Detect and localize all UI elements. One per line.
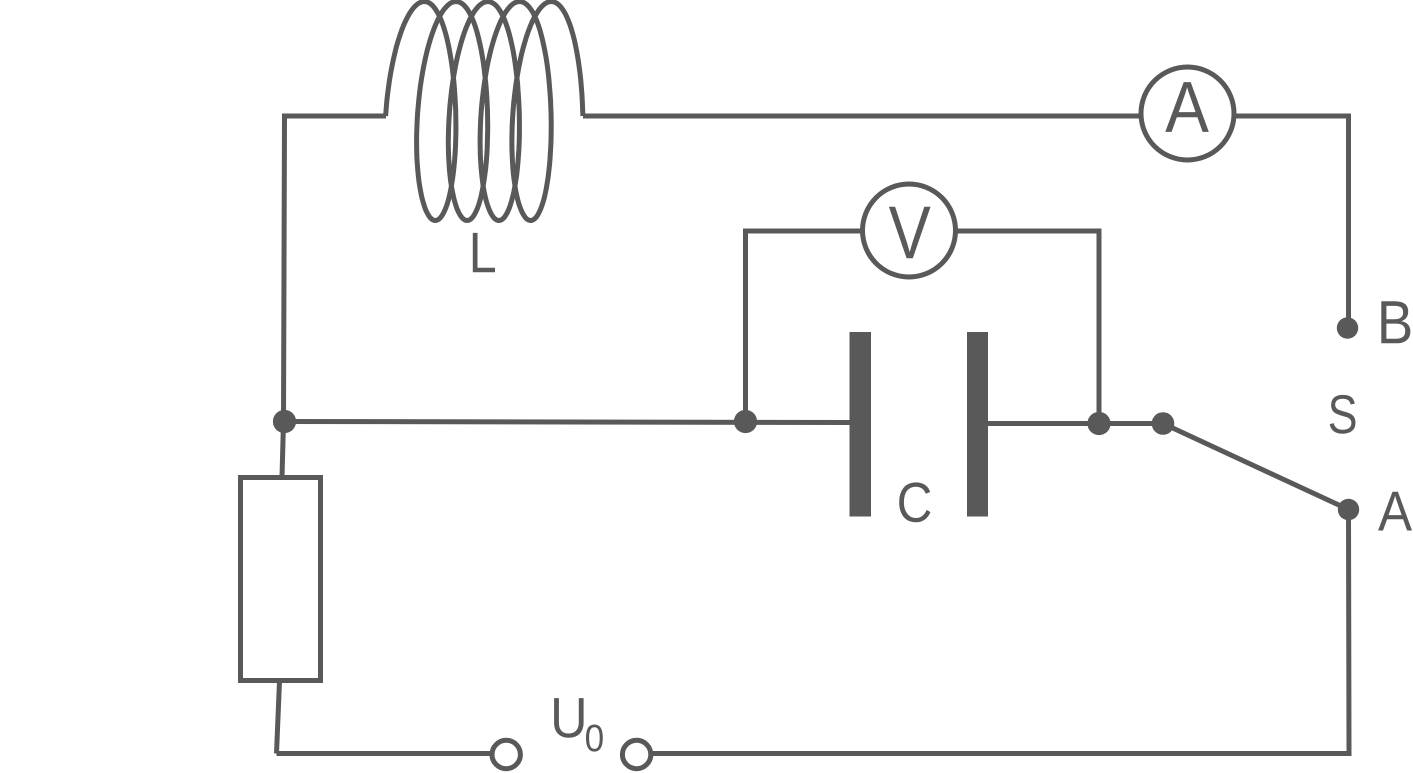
wire junction to resistor top	[282, 422, 284, 478]
capacitor C left plate	[850, 332, 872, 517]
contact node A	[1338, 499, 1359, 520]
wire main horizontal: junction to capacitor left plate	[284, 422, 851, 423]
label U	[554, 698, 584, 738]
wire top right: coil to ammeter to corner down to contact B	[583, 116, 1349, 322]
source U0 terminal right (open circle)	[622, 740, 650, 768]
wire bottom rail left: to source terminal	[277, 751, 504, 756]
label C	[899, 482, 930, 522]
wire resistor bottom to bottom rail	[277, 681, 280, 754]
voltmeter V circle	[863, 184, 956, 277]
label U subscript 0	[586, 725, 603, 752]
inductor L coil	[386, 2, 583, 221]
capacitor C right plate	[967, 332, 988, 517]
wire capacitor right plate to switch pivot	[988, 421, 1163, 426]
ammeter A circle	[1141, 67, 1234, 160]
junction node voltmeter right tap	[1087, 412, 1110, 435]
wire left branch: top corner down to junction	[284, 116, 387, 422]
label A	[1378, 492, 1412, 531]
ammeter letter A	[1165, 82, 1209, 132]
wire voltmeter loop	[746, 231, 1100, 424]
label B	[1381, 301, 1410, 343]
label S	[1330, 395, 1356, 434]
voltmeter letter V	[889, 207, 931, 259]
source U0 terminal left (open circle)	[492, 740, 520, 768]
switch pivot node	[1152, 412, 1175, 435]
contact node B	[1337, 317, 1358, 338]
label L	[473, 233, 495, 272]
wire bottom rail right: source terminal to corner up to contact A	[640, 512, 1349, 754]
junction node voltmeter left tap	[734, 410, 757, 433]
junction node on main line left	[273, 410, 296, 433]
resistor body rectangle	[241, 478, 321, 681]
switch S blade	[1163, 424, 1349, 510]
